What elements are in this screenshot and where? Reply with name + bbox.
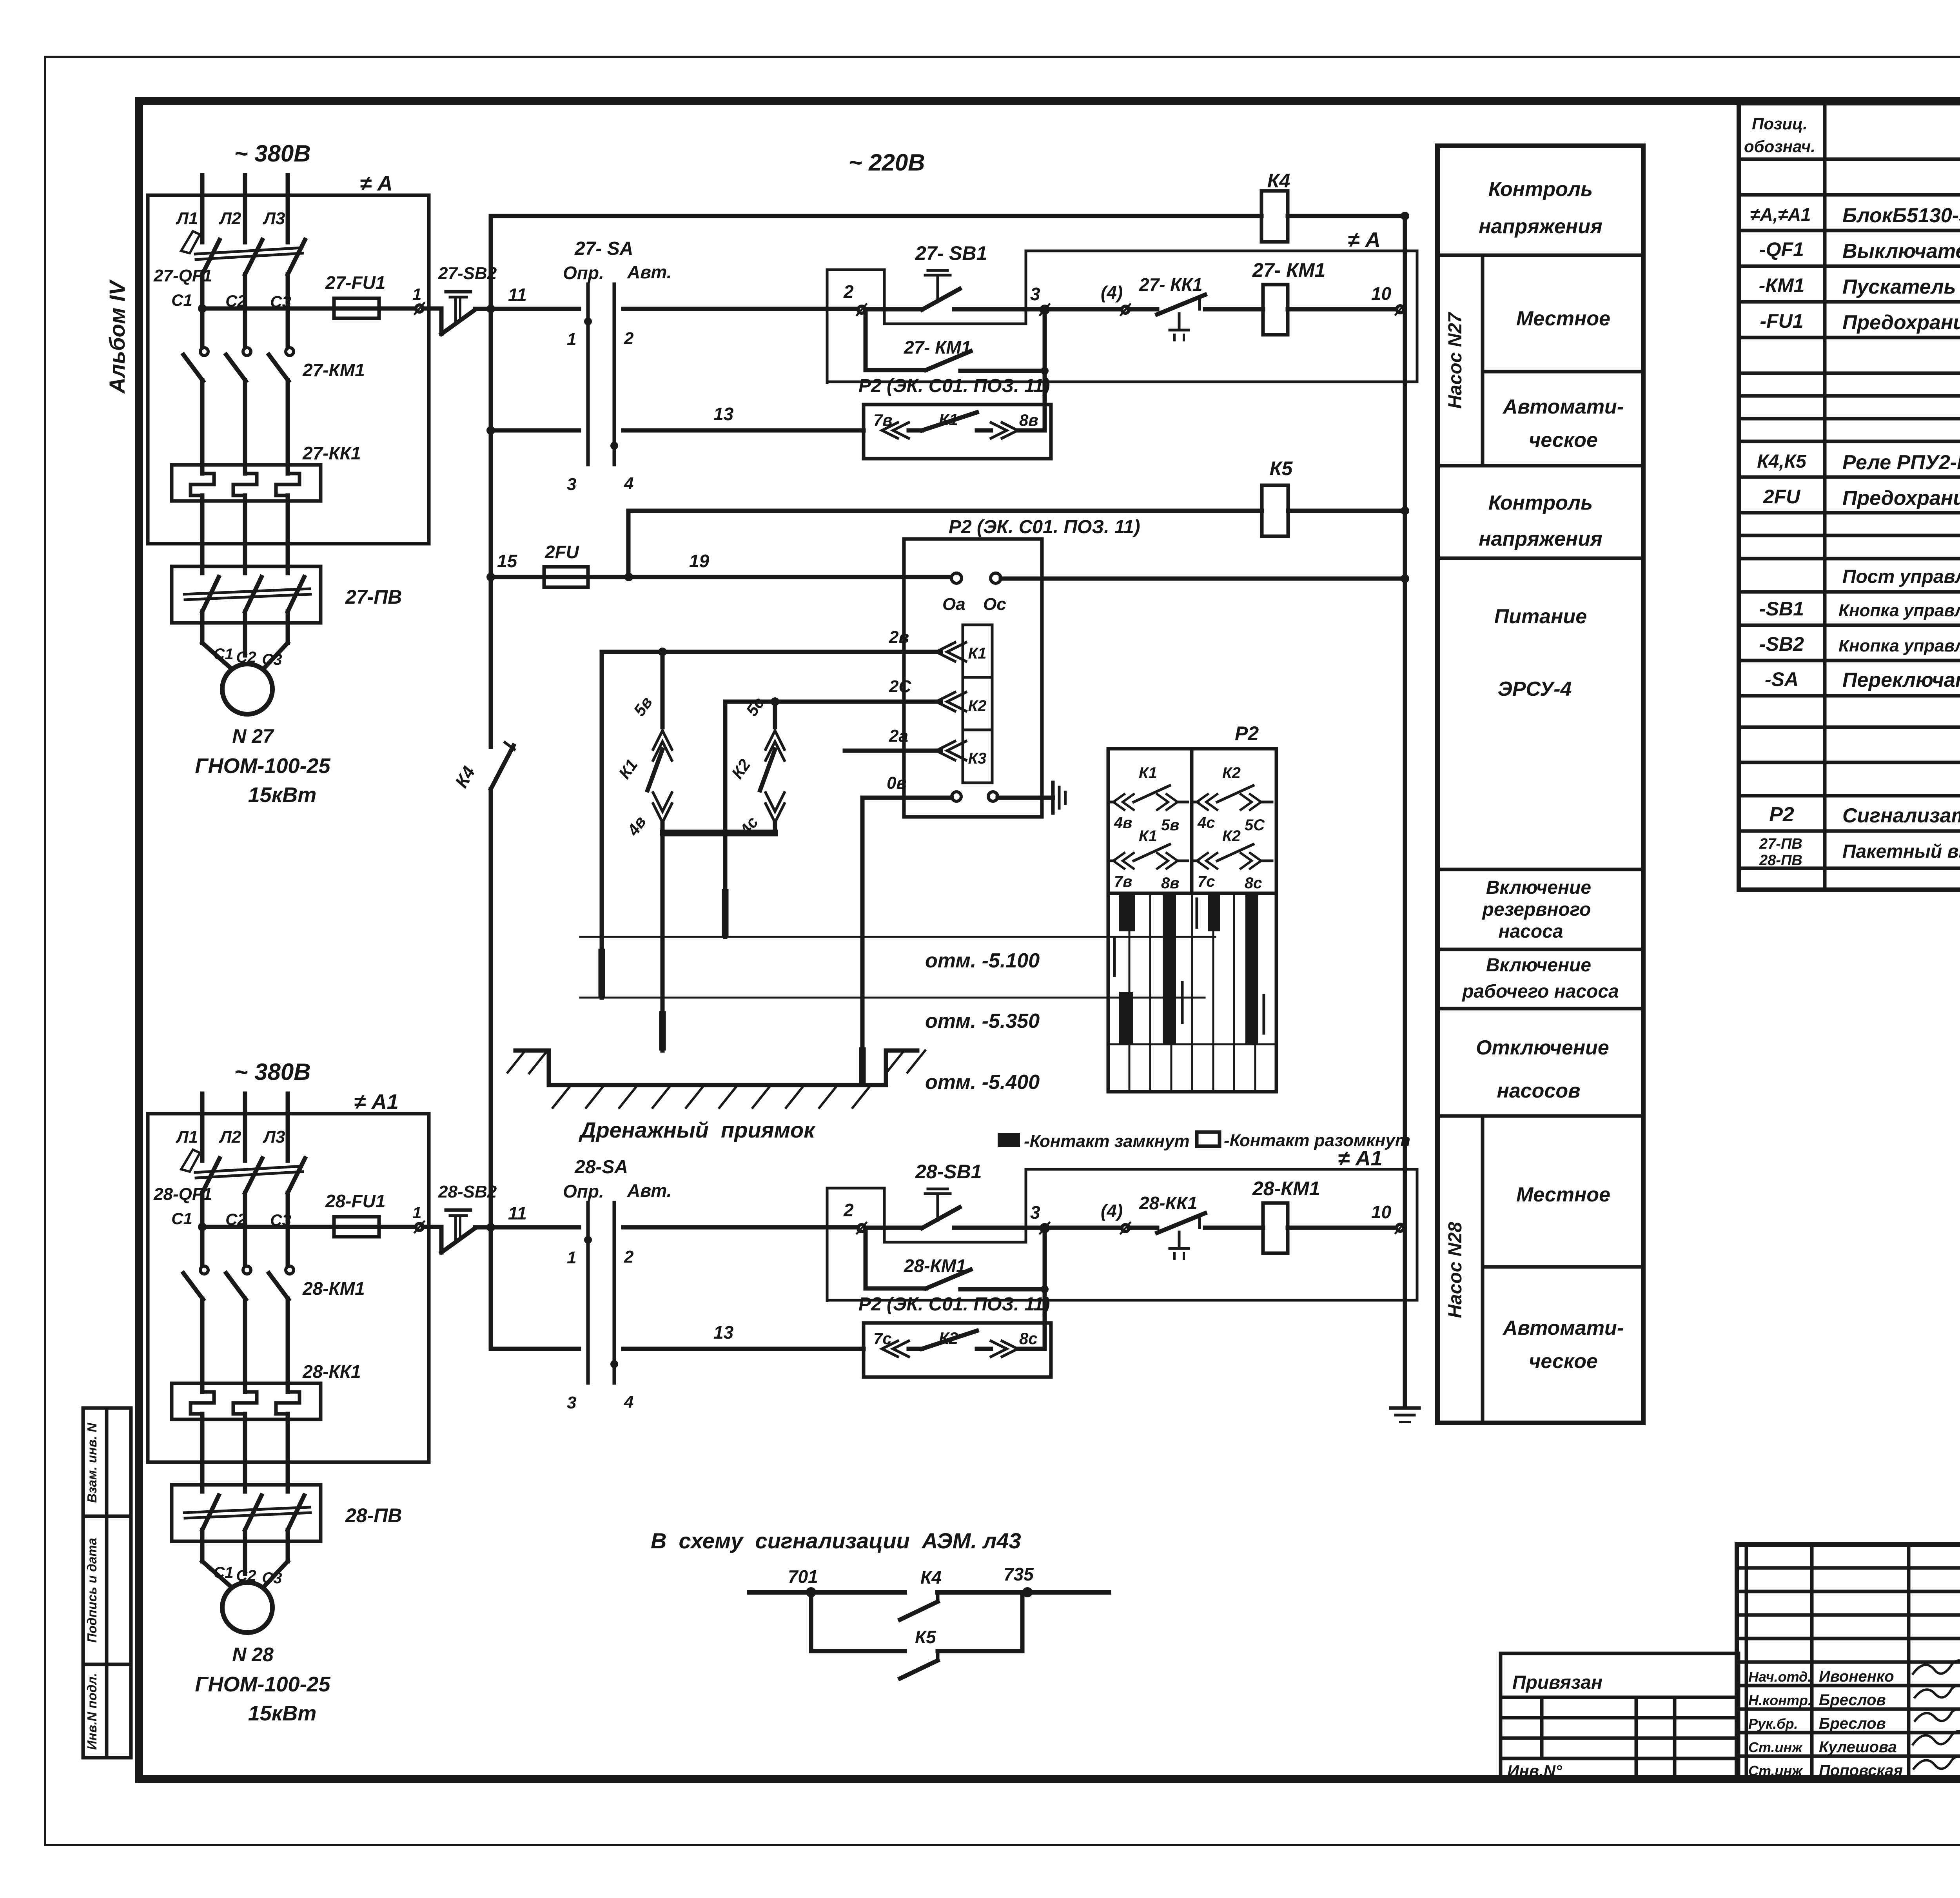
svg-text:≠А,≠А1: ≠А,≠А1 — [1750, 204, 1811, 225]
electrode circuit К2 plug — [728, 694, 784, 839]
svg-text:4: 4 — [624, 474, 633, 493]
svg-text:К1: К1 — [1139, 764, 1157, 782]
svg-text:Р2 (ЭК. С01. ПОЗ. 11): Р2 (ЭК. С01. ПОЗ. 11) — [858, 376, 1050, 396]
svg-text:К2: К2 — [1222, 764, 1241, 782]
svg-text:Автомати-: Автомати- — [1502, 1317, 1624, 1339]
svg-text:-QF1: -QF1 — [1759, 238, 1804, 260]
svg-text:Пост управления у насоса ПКУ-1: Пост управления у насоса ПКУ-15-21.131-5… — [1842, 566, 1960, 587]
terminal (4) — [1122, 306, 1129, 313]
svg-text:В схему сигнализации АЭМ. л: В схему сигнализации АЭМ. л43 — [651, 1528, 1021, 1553]
svg-text:Пускатель ПМЯ-3202-УХЛ4В: Пускатель ПМЯ-3202-УХЛ4В — [1842, 276, 1960, 298]
svg-text:27-SB2: 27-SB2 — [438, 264, 497, 283]
terminal 0в right — [988, 792, 998, 801]
svg-text:отм. -5.100: отм. -5.100 — [925, 949, 1040, 972]
wire node 3 to (4) — [1048, 307, 1122, 312]
legend open — [1197, 1132, 1220, 1146]
svg-text:Р2 (ЭК. С01. ПОЗ. 11): Р2 (ЭК. С01. ПОЗ. 11) — [858, 1294, 1050, 1315]
svg-text:≠ А: ≠ А — [360, 172, 393, 195]
svg-text:Л2: Л2 — [219, 209, 241, 228]
wire node 3 to (4) — [1048, 1226, 1122, 1230]
start button 27-SB1 — [865, 242, 1041, 310]
svg-text:-SB1: -SB1 — [1759, 598, 1804, 620]
svg-text:N 27: N 27 — [232, 725, 274, 747]
svg-text:К1: К1 — [968, 645, 987, 662]
svg-text:28-ПВ: 28-ПВ — [1759, 852, 1802, 869]
svg-text:15: 15 — [497, 551, 518, 571]
junction (feed to FU1) — [198, 1223, 207, 1231]
svg-text:27-КК1: 27-КК1 — [302, 443, 361, 463]
svg-text:27- КК1: 27- КК1 — [1139, 274, 1202, 295]
svg-text:15кВт: 15кВт — [248, 1702, 316, 1725]
svg-text:28-КМ1: 28-КМ1 — [904, 1256, 966, 1276]
svg-text:Переключатель ПФ2: Переключатель ПФ2 — [1842, 669, 1960, 691]
svg-text:28-КМ1: 28-КМ1 — [302, 1278, 365, 1299]
svg-text:≠ А1: ≠ А1 — [354, 1090, 399, 1114]
svg-text:10: 10 — [1371, 1202, 1392, 1222]
motor leads — [200, 1530, 205, 1561]
svg-text:2: 2 — [843, 281, 854, 302]
svg-text:27-ПВ: 27-ПВ — [345, 586, 402, 608]
ground (bottom of right bus) — [1391, 1408, 1419, 1422]
wire phase L3 — [286, 175, 290, 242]
wire left riser (lower part) — [489, 789, 493, 1349]
svg-text:-SB2: -SB2 — [1759, 633, 1804, 655]
svg-text:3: 3 — [567, 1393, 576, 1412]
svg-text:2: 2 — [843, 1200, 854, 1220]
contact К1 (4в-5в) — [1109, 764, 1188, 834]
svg-text:27- КМ1: 27- КМ1 — [1252, 259, 1325, 281]
node 3 — [1041, 1225, 1048, 1232]
svg-text:Бреслов: Бреслов — [1819, 1715, 1886, 1732]
svg-text:Местное: Местное — [1516, 307, 1610, 330]
svg-text:≠ А: ≠ А — [1348, 228, 1381, 252]
wire 2а with arrow — [845, 726, 966, 760]
stop button 27-SB2 — [423, 264, 497, 334]
wire left riser (upper part) — [489, 216, 493, 747]
wire poles KM1 to KK1 — [200, 380, 205, 474]
wire 2с with arrow — [725, 677, 966, 711]
svg-text:28-SB2: 28-SB2 — [438, 1182, 497, 1201]
contactor coil 28-КМ1 — [1252, 1178, 1320, 1253]
level relay contact box Р2 (27) — [858, 376, 1051, 459]
wire signal line — [750, 1590, 905, 1595]
svg-text:Л1: Л1 — [176, 1127, 198, 1147]
svg-text:27- SВ1: 27- SВ1 — [915, 242, 987, 264]
svg-text:7с: 7с — [873, 1329, 892, 1348]
svg-text:2: 2 — [624, 1247, 634, 1267]
left margin stamp strips — [83, 1408, 131, 1758]
block boundary ≠А1 — [148, 1114, 429, 1462]
electrode wire (level -5.350) — [600, 652, 604, 998]
wire poles QF1 to KM1 — [200, 274, 205, 348]
svg-text:Позиц.: Позиц. — [1752, 114, 1808, 133]
svg-text:27-ПВ: 27-ПВ — [1759, 836, 1802, 852]
svg-text:2FU: 2FU — [1763, 486, 1801, 508]
node 735 — [1022, 1587, 1033, 1597]
svg-text:2С: 2С — [889, 677, 911, 696]
drain pit outline — [515, 1051, 917, 1085]
wire rung to SA — [491, 1225, 579, 1230]
svg-text:К3: К3 — [968, 750, 987, 767]
svg-text:Реле РПУ2-М36220У35: Реле РПУ2-М36220У35 — [1842, 451, 1960, 474]
svg-text:27-КМ1: 27-КМ1 — [302, 360, 365, 380]
level relay contact box Р2 (28) — [858, 1294, 1051, 1377]
svg-text:8в: 8в — [1161, 875, 1179, 892]
svg-text:Отключение: Отключение — [1476, 1036, 1609, 1059]
svg-text:напряжения: напряжения — [1479, 528, 1602, 550]
svg-text:Автомати-: Автомати- — [1502, 396, 1624, 418]
svg-text:2а: 2а — [889, 726, 908, 746]
thermal contact 27-КК1 (NC) — [1129, 274, 1205, 340]
svg-text:1: 1 — [412, 285, 421, 303]
svg-text:резервного: резервного — [1482, 899, 1591, 920]
svg-text:Взам. инв. N: Взам. инв. N — [85, 1423, 99, 1503]
ground (sensor) — [1053, 782, 1065, 813]
svg-text:2FU: 2FU — [544, 542, 580, 562]
svg-text:28-ПВ: 28-ПВ — [345, 1504, 402, 1526]
svg-text:К1: К1 — [1139, 827, 1157, 845]
svg-text:Р2: Р2 — [1235, 722, 1259, 744]
svg-text:≠ А1: ≠ А1 — [1338, 1147, 1383, 1170]
svg-text:Опр.: Опр. — [563, 1181, 604, 1201]
wire phase L2 — [243, 175, 247, 242]
legend closed — [998, 1133, 1020, 1147]
fuse 2FU — [544, 542, 588, 587]
svg-text:Ос: Ос — [983, 595, 1006, 614]
svg-text:Привязан: Привязан — [1512, 1672, 1602, 1693]
svg-text:27- SА: 27- SА — [574, 238, 633, 259]
svg-text:2: 2 — [624, 329, 634, 348]
terminal (4) — [1122, 1225, 1129, 1232]
selector switch 28-SA (upper contacts) — [563, 1157, 671, 1383]
circuit breaker 27-QF1 — [153, 231, 305, 285]
svg-text:К4: К4 — [920, 1567, 942, 1588]
svg-text:-Контакт замкнут: -Контакт замкнут — [1024, 1132, 1190, 1151]
svg-text:-FU1: -FU1 — [1760, 310, 1803, 332]
svg-text:5в: 5в — [1161, 817, 1179, 834]
wire poles QF1 to KM1 — [200, 1193, 205, 1267]
node 11 — [486, 1223, 495, 1232]
svg-text:К1: К1 — [939, 410, 958, 429]
svg-text:С1: С1 — [213, 646, 233, 663]
svg-text:3: 3 — [1030, 1202, 1040, 1223]
svg-text:С1: С1 — [213, 1564, 233, 1581]
svg-text:Ст.инж: Ст.инж — [1748, 1763, 1803, 1779]
selector switch 27-SA (lower contacts) — [567, 442, 633, 494]
contactor main contacts 27-КМ1 — [183, 348, 365, 381]
svg-text:Контроль: Контроль — [1488, 492, 1593, 514]
svg-text:Опр.: Опр. — [563, 263, 604, 283]
svg-text:19: 19 — [689, 551, 710, 571]
svg-text:ЭРСУ-4: ЭРСУ-4 — [1497, 678, 1572, 700]
node 701 — [806, 1587, 816, 1597]
wire 0в — [862, 796, 952, 800]
wire SA to node 2 — [623, 1225, 858, 1230]
svg-text:15кВт: 15кВт — [248, 783, 316, 807]
svg-text:N 28: N 28 — [232, 1644, 274, 1666]
svg-text:Подпись и дата: Подпись и дата — [85, 1538, 99, 1643]
svg-text:Предохранитель ППТ-10У3: Предохранитель ППТ-10У3 — [1842, 311, 1960, 334]
svg-text:28-КК1: 28-КК1 — [1139, 1193, 1198, 1213]
wire phase L1 — [200, 1094, 205, 1161]
wire SA to node 2 — [623, 307, 858, 311]
svg-text:Контроль: Контроль — [1488, 178, 1593, 201]
open contact tick marks — [1114, 899, 1264, 1033]
stop button 28-SB2 — [423, 1182, 497, 1252]
contact К1 (7в-8в) — [1109, 827, 1188, 892]
signature grid — [1737, 1544, 1960, 1780]
selector switch 28-SA (lower contacts) — [567, 1360, 633, 1412]
svg-text:ческое: ческое — [1529, 1350, 1598, 1373]
svg-text:Насос N28: Насос N28 — [1445, 1222, 1466, 1318]
contact К2 (7с-8с) — [1193, 827, 1272, 892]
block boundary ≠А — [148, 195, 429, 544]
thermal relay 28-КК1 — [172, 1361, 361, 1419]
terminal 10 — [1397, 306, 1404, 313]
wire К5 row — [628, 509, 1262, 513]
svg-text:Л1: Л1 — [176, 209, 198, 228]
motor leads — [200, 611, 205, 643]
circuit breaker 28-QF1 — [153, 1150, 305, 1204]
svg-text:обознач.: обознач. — [1744, 137, 1815, 156]
wire poles KK1 to PV — [200, 1414, 205, 1492]
svg-text:4с: 4с — [1197, 814, 1215, 831]
svg-text:Авт.: Авт. — [627, 262, 671, 282]
svg-text:1: 1 — [412, 1203, 421, 1222]
level line -5.100 — [580, 936, 1215, 938]
wire 19 — [588, 575, 951, 579]
wire rung 13 — [486, 404, 864, 435]
electrode wire (level -5.100) — [723, 702, 728, 937]
fuse 27-FU1 on control tap — [202, 272, 415, 318]
sensor box Р2 — [904, 539, 1042, 817]
svg-text:7в: 7в — [873, 411, 893, 429]
svg-text:28-FU1: 28-FU1 — [325, 1191, 385, 1211]
svg-text:Л3: Л3 — [263, 1127, 285, 1147]
signatures (scribbles) — [1913, 1660, 1960, 1674]
svg-text:701: 701 — [788, 1566, 818, 1587]
svg-text:11: 11 — [508, 285, 527, 305]
svg-text:Л2: Л2 — [219, 1127, 241, 1147]
block boundary ≠А1 (control) — [827, 1169, 1417, 1302]
wire node3 vertical — [1043, 309, 1047, 430]
svg-text:13: 13 — [713, 1322, 734, 1343]
packet switch 27-ПВ — [172, 566, 402, 623]
svg-text:Л3: Л3 — [263, 209, 285, 228]
svg-text:ГНОМ-100-25: ГНОМ-100-25 — [195, 754, 330, 778]
wire КК1 to coil — [1205, 307, 1263, 312]
thermal contact 28-КК1 (NC) — [1129, 1193, 1205, 1259]
svg-text:13: 13 — [713, 404, 734, 424]
svg-text:Включение: Включение — [1486, 955, 1591, 976]
svg-text:8с: 8с — [1245, 875, 1262, 892]
svg-text:ГНОМ-100-25: ГНОМ-100-25 — [195, 1673, 330, 1696]
wire phase L1 — [200, 175, 205, 242]
svg-text:Авт.: Авт. — [627, 1180, 671, 1201]
svg-text:28-SА: 28-SА — [574, 1157, 628, 1178]
svg-text:Поповская: Поповская — [1819, 1762, 1903, 1779]
terminal Оа — [951, 573, 962, 583]
svg-text:3: 3 — [1030, 284, 1040, 304]
svg-text:5С: 5С — [1245, 817, 1265, 834]
svg-text:К5: К5 — [1270, 457, 1293, 479]
svg-text:8с: 8с — [1019, 1329, 1038, 1348]
svg-text:-КМ1: -КМ1 — [1759, 274, 1805, 296]
svg-text:К4,К5: К4,К5 — [1757, 451, 1807, 472]
svg-text:Альбом IV: Альбом IV — [105, 279, 129, 394]
svg-text:Р2 (ЭК. С01. ПОЗ. 11): Р2 (ЭК. С01. ПОЗ. 11) — [949, 517, 1140, 537]
relay coil К4 — [1261, 170, 1290, 242]
svg-text:Дренажный приямок: Дренажный приямок — [579, 1118, 816, 1142]
auxiliary contact 28-КМ1 (self hold) — [866, 1232, 1049, 1293]
svg-text:отм. -5.400: отм. -5.400 — [925, 1071, 1040, 1094]
table frame — [1108, 749, 1276, 893]
svg-text:Насос N27: Насос N27 — [1445, 312, 1466, 409]
wire 2в with arrow — [602, 628, 966, 661]
svg-text:1: 1 — [567, 1248, 576, 1267]
wire coil to node 10 — [1288, 1226, 1396, 1230]
svg-text:Бреслов: Бреслов — [1819, 1691, 1886, 1709]
wire top bus to right bus — [1288, 214, 1405, 218]
terminal 10 — [1397, 1224, 1404, 1231]
relay cells К1 К2 К3 — [963, 625, 992, 783]
svg-text:28-КМ1: 28-КМ1 — [1252, 1178, 1320, 1199]
svg-text:2в: 2в — [889, 628, 909, 647]
selector switch 27-SA (upper contacts) — [563, 238, 671, 465]
terminal 2 — [858, 306, 865, 313]
svg-text:11: 11 — [508, 1203, 527, 1223]
svg-text:0в: 0в — [887, 773, 907, 793]
svg-text:Оа: Оа — [942, 595, 965, 614]
svg-text:Питание: Питание — [1494, 605, 1587, 628]
wire Ос to right bus — [1001, 577, 1405, 581]
svg-text:БлокБ5130-3574УХЛ4: БлокБ5130-3574УХЛ4 — [1842, 204, 1960, 227]
jumper (bold) — [660, 830, 778, 836]
svg-text:Кулешова: Кулешова — [1819, 1738, 1897, 1756]
wire КК1 to coil — [1205, 1226, 1263, 1230]
packet switch 28-ПВ — [172, 1485, 402, 1541]
svg-text:~ 380В: ~ 380В — [234, 140, 310, 167]
svg-text:К2: К2 — [968, 697, 987, 715]
svg-text:~ 220В: ~ 220В — [848, 149, 925, 176]
svg-text:Н.контр.: Н.контр. — [1748, 1692, 1812, 1708]
svg-text:-SА: -SА — [1765, 668, 1798, 690]
state chart grid — [1108, 893, 1276, 1092]
svg-text:рабочего насоса: рабочего насоса — [1461, 981, 1619, 1002]
node 11 — [486, 305, 495, 313]
svg-text:Р2: Р2 — [1769, 803, 1794, 826]
svg-text:4: 4 — [624, 1392, 633, 1412]
block boundary ≠А (control) — [827, 251, 1417, 384]
terminal 1 — [416, 305, 423, 312]
wire phase L2 — [243, 1094, 247, 1161]
wire phase L3 — [286, 1094, 290, 1161]
electrode circuit К1 plug — [615, 652, 672, 1051]
common electrode 0в — [860, 798, 865, 1085]
svg-text:Инв.N°: Инв.N° — [1507, 1762, 1563, 1780]
svg-text:4в: 4в — [1114, 814, 1132, 831]
svg-text:Местное: Местное — [1516, 1183, 1610, 1206]
fuse 28-FU1 on control tap — [202, 1191, 415, 1237]
wire poles KM1 to KK1 — [200, 1299, 205, 1392]
svg-text:(4): (4) — [1101, 282, 1123, 303]
svg-text:отм. -5.350: отм. -5.350 — [925, 1010, 1040, 1032]
svg-text:28-КК1: 28-КК1 — [302, 1361, 361, 1382]
svg-text:735: 735 — [1004, 1564, 1034, 1584]
closed contact bars (black) — [1119, 893, 1258, 1044]
junction (feed to FU1) — [198, 304, 207, 313]
wire top bus — [491, 214, 1261, 218]
svg-text:Включение: Включение — [1486, 877, 1591, 898]
wire to ground — [998, 796, 1053, 800]
node top bus / right bus — [1401, 212, 1409, 220]
svg-text:С1: С1 — [171, 291, 192, 309]
svg-text:С3: С3 — [262, 651, 282, 668]
terminal 1 — [416, 1223, 423, 1230]
svg-text:К5: К5 — [915, 1627, 936, 1647]
wire node3 vertical — [1043, 1227, 1047, 1349]
svg-text:Пакетный выключатель ПВ-3-60/У: Пакетный выключатель ПВ-3-60/У267 — [1842, 841, 1960, 862]
svg-text:Инв.N подл.: Инв.N подл. — [85, 1673, 99, 1750]
level line -5.350 — [580, 997, 1205, 999]
svg-text:С3: С3 — [262, 1570, 282, 1587]
svg-text:7в: 7в — [1114, 873, 1132, 890]
start button 28-SB1 — [865, 1161, 1041, 1228]
svg-text:насосов: насосов — [1497, 1080, 1580, 1102]
svg-text:27- КМ1: 27- КМ1 — [904, 337, 971, 357]
svg-text:Ивоненко: Ивоненко — [1819, 1668, 1894, 1685]
wire coil to node 10 — [1288, 307, 1396, 312]
svg-text:Ст.инж: Ст.инж — [1748, 1739, 1803, 1755]
svg-text:Рук.бр.: Рук.бр. — [1748, 1716, 1798, 1732]
svg-text:28-SВ1: 28-SВ1 — [915, 1161, 982, 1183]
terminal 2 — [858, 1225, 865, 1232]
wire right bus — [1403, 216, 1407, 1405]
wire poles KK1 to PV — [200, 495, 205, 573]
svg-text:Кнопка управления КУ; 2р; крас: Кнопка управления КУ; 2р; красный толкат… — [1838, 636, 1960, 655]
node 3 — [1041, 306, 1048, 313]
svg-text:Выключатель АЕ2056М-100У3: Выключатель АЕ2056М-100У3 — [1842, 240, 1960, 263]
svg-text:Нач.отд.: Нач.отд. — [1748, 1669, 1811, 1685]
wire rung to SA — [491, 307, 579, 311]
terminal Ос — [991, 573, 1001, 583]
svg-text:С1: С1 — [171, 1209, 192, 1228]
wire drop to fuse row — [626, 511, 631, 577]
wire 15 — [491, 575, 544, 579]
svg-text:27-FU1: 27-FU1 — [325, 272, 385, 293]
auxiliary contact 27-КМ1 (self hold) — [866, 313, 1049, 375]
contactor coil 27-КМ1 — [1252, 259, 1325, 335]
svg-text:К4: К4 — [1267, 170, 1290, 192]
svg-text:насоса: насоса — [1498, 921, 1563, 942]
relay coil К5 — [1262, 457, 1293, 536]
svg-text:К2: К2 — [1222, 827, 1241, 845]
svg-text:(4): (4) — [1101, 1201, 1123, 1221]
relay contact К5 (signal, parallel) — [811, 1592, 1022, 1678]
pit hatching — [508, 1051, 925, 1108]
svg-text:Предохранитель ПН50: Предохранитель ПН50 — [1842, 487, 1960, 510]
motor N27 — [222, 664, 272, 714]
svg-text:К2: К2 — [939, 1329, 958, 1347]
motor N28 — [222, 1582, 272, 1633]
relay contact К4 (signal) — [900, 1567, 942, 1620]
contactor main contacts 28-КМ1 — [183, 1266, 365, 1299]
svg-text:Сигнализатор уровня ЭРСУ-4: Сигнализатор уровня ЭРСУ-4 — [1842, 804, 1960, 827]
svg-text:10: 10 — [1371, 283, 1392, 304]
svg-text:Кнопка управления КУ: 1з,1р-че: Кнопка управления КУ: 1з,1р-черный толка… — [1838, 601, 1960, 620]
terminal 0в left — [952, 792, 961, 801]
contact К2 (4с-5с) — [1193, 764, 1272, 834]
